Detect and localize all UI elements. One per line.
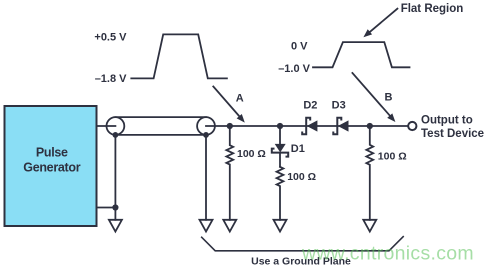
svg-text:+0.5 V: +0.5 V — [94, 32, 127, 44]
svg-text:A: A — [236, 92, 244, 104]
svg-text:B: B — [385, 92, 393, 104]
svg-text:–1.0 V: –1.0 V — [278, 63, 310, 75]
svg-text:Flat Region: Flat Region — [401, 3, 464, 15]
svg-text:100 Ω: 100 Ω — [237, 148, 266, 160]
svg-text:D3: D3 — [332, 99, 346, 111]
svg-text:100 Ω: 100 Ω — [378, 151, 407, 163]
svg-text:D2: D2 — [303, 99, 317, 111]
svg-text:–1.8 V: –1.8 V — [95, 73, 127, 85]
svg-text:Generator: Generator — [23, 161, 80, 175]
svg-text:www.cntronics.com: www.cntronics.com — [301, 243, 474, 265]
svg-text:Output to: Output to — [421, 115, 473, 127]
svg-text:100 Ω: 100 Ω — [287, 171, 316, 183]
svg-text:D1: D1 — [291, 143, 305, 155]
svg-text:Pulse: Pulse — [36, 146, 68, 160]
svg-text:Test Device: Test Device — [421, 128, 484, 140]
svg-text:0 V: 0 V — [291, 40, 308, 52]
